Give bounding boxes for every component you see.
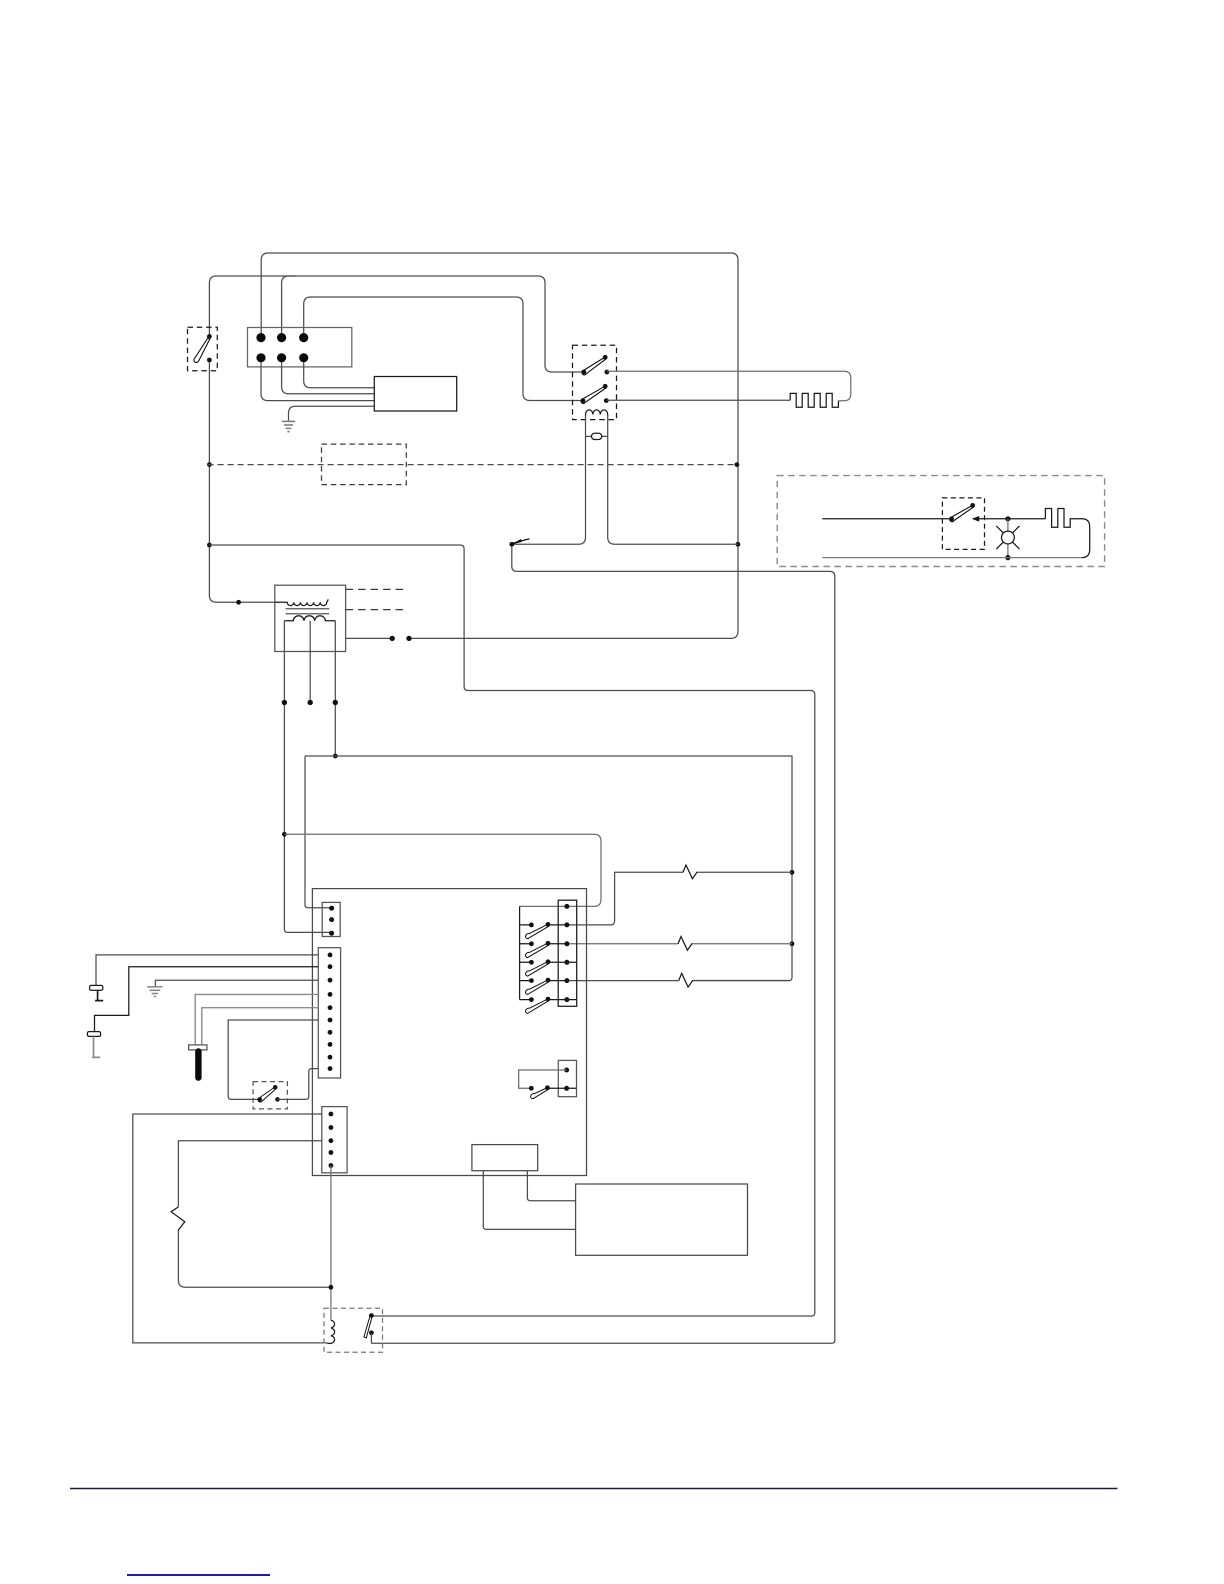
node secondary right leg junction [333,754,338,759]
transformer T1 primary winding [275,599,328,605]
wire 756 rail to right riser [305,756,792,981]
CN-B pin8 [328,1042,333,1047]
CN-C pin2 [329,1125,334,1130]
terminal TB1-2 [277,333,286,342]
door lock lever switch node [509,542,514,547]
node secondary left leg tap [282,832,287,837]
CN-C pin5 [329,1163,334,1168]
wire bake branch with break to strip pin3 [567,943,792,945]
CN-B pin3 [328,978,333,983]
terminal TB1-6 [299,353,308,362]
wire switch to lamp and element [974,518,1046,520]
CN-B pin7 [328,1030,333,1035]
break symbol latch motor loop [171,1207,185,1231]
CN-D pin5 [564,978,569,983]
plug P1 pin [95,990,103,1000]
relay K1 upper blade [582,357,606,375]
relay RY5 contacts and blade [520,997,577,1014]
node L1 riser at relay coil return [736,542,741,547]
transformer dashed aux output upper [346,588,407,590]
wire CN-B4 to probe [195,994,318,1045]
CN-A pin1 [329,906,334,911]
relay K1 coil left leg down to lock lever node [513,415,586,544]
door motor relay K2 dashed box [324,1308,383,1352]
relay bank strip CN-D box [558,900,577,1006]
wire CN-C1 outer loop to motor coil [133,1114,327,1343]
light switch S2 blade [950,506,974,522]
output connector pin male [406,636,411,641]
wire CN-C3 loop with break to coil node [178,1141,331,1288]
control board PCB outline [312,889,586,1176]
oven light circuit dashed enclosure [777,476,1104,567]
wire 756 rail drop to connector A pin1 [305,756,332,908]
transformer secondary center tap stub [309,621,311,703]
wire display to clock module upper [527,1171,575,1201]
relay K2 bottom contact drop [370,1333,372,1344]
display module box on PCB [472,1145,538,1171]
terminal TB1-3 [299,333,308,342]
CN-D pin6 [564,997,569,1002]
wire lower element branch with break to strip pin5 [567,980,790,982]
relay K1 coil [586,410,608,416]
relay RY1 contacts and blade [520,922,567,939]
plug P2 pin [92,1036,100,1057]
CN-B pin10 [328,1066,333,1071]
CN-C pin3 [329,1138,334,1143]
latch switch S3 blade [258,1087,276,1102]
thermostat TCO dashed box [322,444,407,485]
transformer secondary right leg [334,621,336,756]
footer rule [70,1488,1118,1490]
relay RY2 contacts and blade [520,941,567,958]
ground chassis G1 [282,421,295,431]
node on door wire at lock circuit tap [207,543,212,548]
relay K1 lower NO contact [604,398,609,403]
connector CN-A box [322,902,340,936]
relay RY6 strip CN-E box [558,1060,576,1096]
CN-C pin4 [329,1150,334,1155]
lamp LP1 bulb [1002,531,1015,544]
CN-B pin9 [328,1055,333,1060]
wire TB1-4 to noise filter [261,362,374,401]
dashed interlock line [208,464,737,466]
node riser at bake feed [790,941,795,946]
wire TB1-6 to noise filter [304,362,375,388]
light switch S2 dashed box [942,498,984,550]
relay K1 lower blade [581,386,606,403]
relay K2 coil [327,1320,334,1343]
latch switch S3 pivot contact [257,1097,262,1102]
relay RY4 contacts and blade [520,978,567,995]
CN-E pin1 [564,1068,569,1073]
lamp drop wire [1007,519,1009,558]
connector CN-B box [318,948,340,1078]
node secondary right leg connector [333,700,338,705]
wire broil element bottom to relay K1 lower NO [606,399,790,401]
CN-A pin3 [329,931,334,936]
light element HE2 and return loop [1045,509,1089,558]
light switch S2 moving tip [970,503,975,508]
wire noise filter to chassis ground [289,406,375,421]
CN-D pin2 [564,922,569,927]
door switch S1 blade [194,338,210,362]
wire TB1-5 to noise filter [282,362,375,394]
wire terminal L2 over to relay lower common [304,297,583,401]
door lock lever blade with arrowhead [514,539,530,543]
break symbol bake branch [678,937,692,951]
wire latch switch to CN-B10 [278,1069,319,1100]
plug P1 barrel [90,985,103,990]
CN-D pin1 [564,904,569,909]
door switch S1 contact bottom [207,358,212,363]
light switch S2 pivot contact [949,516,954,521]
wire display to clock module lower [483,1171,575,1230]
node riser at broil feed [790,870,795,875]
latch switch S3 moving tip [273,1085,278,1090]
node dashed line at L1 riser [735,462,740,467]
transformer T1 core [286,609,330,614]
break symbol lower branch [679,973,693,987]
CN-C pin1 [329,1112,334,1117]
transformer T1 secondary winding [284,616,335,621]
node secondary left leg connector [282,700,287,705]
node motor coil feed [329,1285,334,1290]
fuse F1 leads [586,435,608,437]
oven temperature sensor RT1 collar [189,1045,207,1050]
relay K1 lower moving tip [603,384,608,389]
break symbol broil branch [683,865,697,879]
transformer main output lead [346,637,390,639]
ground G2 [147,987,162,997]
light switch S2 fixed contact arrow [972,516,980,522]
fuse F1 body [592,433,602,439]
relay K1 upper NO contact [605,370,610,375]
footer link underline [127,1574,270,1576]
latch switch S3 fixed contact [275,1097,280,1102]
clock module box [576,1184,748,1255]
CN-E pin2 [564,1086,569,1091]
plug P2 barrel [87,1032,100,1037]
broil element HE1 [790,393,838,407]
wire CN-B2 to plug P2 [95,967,319,1032]
CN-B pin4 [328,992,333,997]
wire L1 from terminal L1 up over to right side down to transformer output connector [261,253,738,638]
CN-A pin2 [329,917,334,922]
CN-B pin1 [328,953,333,958]
terminal TB1-5 [277,353,286,362]
wire door-switch bottom down to transformer primary [209,363,275,603]
terminal block TB1 [248,328,352,367]
relay K1 coil right leg down to L1 riser [608,415,738,544]
wire tap 834 over and down to relay strip pin1 [284,834,601,906]
transformer secondary left leg down to board connector A pin3 [284,621,331,933]
relay RY6 loop wire [519,1070,567,1088]
wire CN-B3 to signal ground [155,980,318,986]
wire CN-B6 to latch switch [228,1020,318,1099]
relay K2 top contact [369,1313,374,1318]
latch switch S3 dashed box [253,1082,287,1109]
wire relay K1 upper NO to broil element top [607,371,851,400]
node lamp bottom [1005,555,1010,560]
transformer dashed aux output lower [346,609,408,611]
wire element branch down to relay strip pin2 [567,872,792,925]
wire light feed [822,518,951,520]
wire lock circuit tap across and down to latch loop [209,545,814,1316]
door switch S1 dashed box [188,327,218,371]
wire door-switch top to relay common (line N) [209,276,583,372]
relay K1 upper moving tip [603,355,608,360]
lamp LP1 rays [996,526,1019,549]
oven temperature sensor RT1 probe body [195,1052,201,1078]
node on door wire at dashed line [207,462,212,467]
node lamp top [1005,516,1010,521]
terminal TB1-4 [256,353,265,362]
relay K2 bottom contact [369,1330,374,1335]
wire terminal N joining line N [282,276,296,333]
relay K2 blade [364,1317,372,1338]
CN-B pin6 [328,1018,333,1023]
wire CN-B5 to probe [202,1008,318,1045]
relay RY3 contacts and blade [520,959,577,976]
CN-B pin5 [328,1005,333,1010]
wire CN-C5 down to motor relay coil [330,1166,332,1321]
CN-D pin3 [564,941,569,946]
CN-B pin2 [328,964,333,969]
lamp circuit return wire [822,557,1081,559]
node on transformer primary feed [236,600,241,605]
terminal TB1-1 [256,333,265,342]
relay RY6 contacts and blade [529,1085,576,1098]
CN-D pin4 [564,960,569,965]
wire lock lever down and across to motor relay top contact [371,546,834,1343]
wire CN-B1 to plug P1 [96,955,318,986]
output connector pin female [390,636,395,641]
door switch S1 contact top [207,334,212,339]
relay K1 lower common contact [581,398,586,403]
relay K1 upper common contact [581,370,586,375]
node center tap end [308,700,313,705]
relay K1 dashed box [573,345,617,419]
connector CN-C box [322,1107,347,1173]
transformer T1 box [275,585,346,651]
noise filter FL1 [374,377,456,412]
relay bank bus [519,906,521,999]
